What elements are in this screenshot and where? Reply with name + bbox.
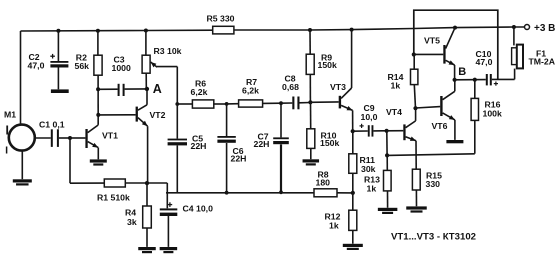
svg-text:22Н: 22Н [231, 154, 247, 164]
svg-text:VT6: VT6 [432, 121, 448, 131]
svg-text:150k: 150k [318, 60, 337, 70]
svg-text:180: 180 [316, 178, 331, 188]
svg-text:R3 10k: R3 10k [154, 46, 182, 56]
svg-text:M1: M1 [4, 110, 16, 120]
svg-text:VT1: VT1 [102, 131, 118, 141]
svg-text:22Н: 22Н [254, 139, 270, 149]
svg-text:47,0: 47,0 [28, 61, 45, 71]
svg-text:150k: 150k [320, 138, 339, 148]
svg-text:6,2k: 6,2k [242, 86, 259, 96]
svg-text:1000: 1000 [112, 63, 131, 73]
svg-text:0,68: 0,68 [282, 82, 299, 92]
svg-text:VT1...VT3 - КТ3102: VT1...VT3 - КТ3102 [391, 232, 476, 243]
svg-text:56k: 56k [75, 61, 90, 71]
svg-text:330: 330 [426, 179, 441, 189]
svg-text:VT2: VT2 [150, 110, 166, 120]
svg-text:30k: 30k [361, 164, 376, 174]
svg-text:1k: 1k [391, 81, 401, 91]
svg-text:47,0: 47,0 [476, 57, 493, 67]
svg-text:R5 330: R5 330 [207, 14, 235, 24]
svg-text:VT5: VT5 [424, 36, 440, 46]
svg-text:ТМ-2А: ТМ-2А [529, 57, 556, 67]
svg-text:3k: 3k [127, 217, 137, 227]
svg-text:1k: 1k [329, 221, 339, 231]
svg-text:10,0: 10,0 [361, 112, 378, 122]
svg-text:A: A [153, 82, 162, 96]
svg-text:6,2k: 6,2k [191, 87, 208, 97]
svg-text:100k: 100k [483, 109, 502, 119]
svg-text:R4: R4 [125, 208, 136, 218]
svg-text:VT3: VT3 [330, 82, 346, 92]
svg-text:B: B [458, 66, 466, 78]
svg-text:VT4: VT4 [386, 107, 402, 117]
svg-text:R1 510k: R1 510k [97, 193, 130, 203]
svg-text:+3 В: +3 В [534, 23, 555, 34]
svg-text:1k: 1k [367, 184, 377, 194]
svg-text:C4 10,0: C4 10,0 [183, 204, 214, 214]
svg-text:22Н: 22Н [191, 141, 207, 151]
svg-text:C1 0,1: C1 0,1 [39, 120, 65, 130]
